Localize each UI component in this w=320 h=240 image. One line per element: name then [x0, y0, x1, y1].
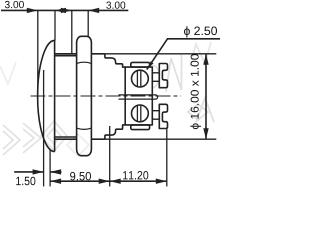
- phi16 bottom extension line: [105, 138, 216, 140]
- dim text 3.00 (right): [106, 2, 125, 9]
- hex nut face boundary (upper): [77, 62, 91, 63]
- dim line 9.50 / 11.20: [50, 180, 167, 182]
- dim text 3.00 (left): [5, 1, 24, 8]
- dim line 1.50: [14, 171, 61, 173]
- top dim extension line x=55: [54, 10, 56, 40]
- washer top edge lines: [55, 54, 77, 56]
- watermark cluster top-left corner: [0, 62, 16, 84]
- lower terminal neck: [152, 111, 159, 120]
- center groove in block: [119, 95, 158, 99]
- bottom extension line x=165.9: [166, 129, 168, 187]
- button dome arc: [38, 40, 55, 151]
- bottom extension line x=44.3: [43, 70, 45, 186]
- body lower profile with steps: [91, 125, 125, 139]
- upper boss on block: [131, 62, 150, 67]
- leader line for phi 2.50: [147, 39, 220, 70]
- upper terminal neck: [152, 73, 159, 82]
- hex nut: [77, 36, 92, 155]
- dim text 9.50: [70, 172, 91, 181]
- upper screw head: [132, 70, 149, 87]
- watermark cluster bottom-left: [3, 121, 89, 156]
- centerline: [31, 95, 182, 97]
- dim text 11.20: [123, 171, 148, 180]
- lower screw head: [132, 105, 149, 122]
- bottom extension line x=107: [109, 126, 111, 186]
- top dim extension line x=71.8: [71, 10, 73, 53]
- hex nut face boundary (lower): [77, 128, 91, 129]
- dim text phi 2.50: [184, 26, 217, 37]
- leader arrowhead at screw: [147, 61, 154, 69]
- top dim extension line x=88.2: [87, 10, 89, 36]
- lower screw slot chords: [137, 105, 140, 122]
- top dim arrows: [27, 8, 99, 13]
- body upper profile with steps: [91, 54, 125, 67]
- cap skirt front edge: [54, 40, 56, 151]
- dim text 1.50: [16, 177, 35, 186]
- watermark cluster top-right: [150, 42, 214, 122]
- phi16 dimension line: [205, 54, 207, 139]
- phi16 top extension line: [105, 53, 216, 55]
- top dimension line: [1, 9, 128, 11]
- lower boss on block: [131, 125, 150, 130]
- bottom extension line x=54.5: [49, 150, 51, 187]
- terminal block: [125, 67, 152, 125]
- dim text phi 16.00 x 1.00 (rotated): [190, 54, 201, 129]
- top dim extension line x=37.8 (button face): [37, 10, 39, 97]
- bottom dim arrows: [33, 169, 167, 184]
- phi16 dim arrows: [203, 54, 208, 139]
- upper screw slot chords: [137, 70, 140, 87]
- lower solder lug: [159, 104, 167, 128]
- upper solder lug: [159, 64, 167, 88]
- washer bottom edge lines: [55, 137, 77, 139]
